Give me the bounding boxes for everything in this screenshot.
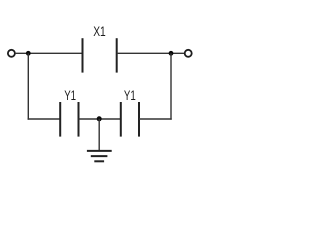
svg-text:Y1: Y1 [64, 88, 76, 103]
label Y1 right [124, 88, 136, 103]
junction top-left node [26, 51, 31, 56]
wire bottom-center: Y1 left to Y1 right through junction [79, 118, 121, 120]
terminal pin right [185, 50, 192, 57]
wire right vertical: top-right junction down to bottom row [170, 53, 172, 119]
wire left vertical: top-left junction down to bottom row [27, 53, 29, 119]
wire bottom-left: corner to Y1 left plate [28, 118, 61, 120]
ground [87, 151, 112, 161]
svg-text:Y1: Y1 [124, 88, 136, 103]
label X1 [93, 24, 106, 39]
junction bottom-center node [97, 116, 102, 121]
crystal X1 plates [83, 38, 117, 72]
junction top-right node [169, 51, 174, 56]
wire ground stem [98, 119, 100, 151]
wire top-left: terminal to X1 left plate [15, 52, 82, 54]
wire top-right: X1 right plate to terminal [117, 52, 185, 54]
capacitor Y1 left plates [60, 102, 78, 137]
svg-text:X1: X1 [93, 24, 106, 39]
wire bottom-right: Y1 right plate to corner [139, 118, 172, 120]
capacitor Y1 right plates [121, 102, 139, 137]
terminal pin left [8, 50, 15, 57]
label Y1 left [64, 88, 76, 103]
